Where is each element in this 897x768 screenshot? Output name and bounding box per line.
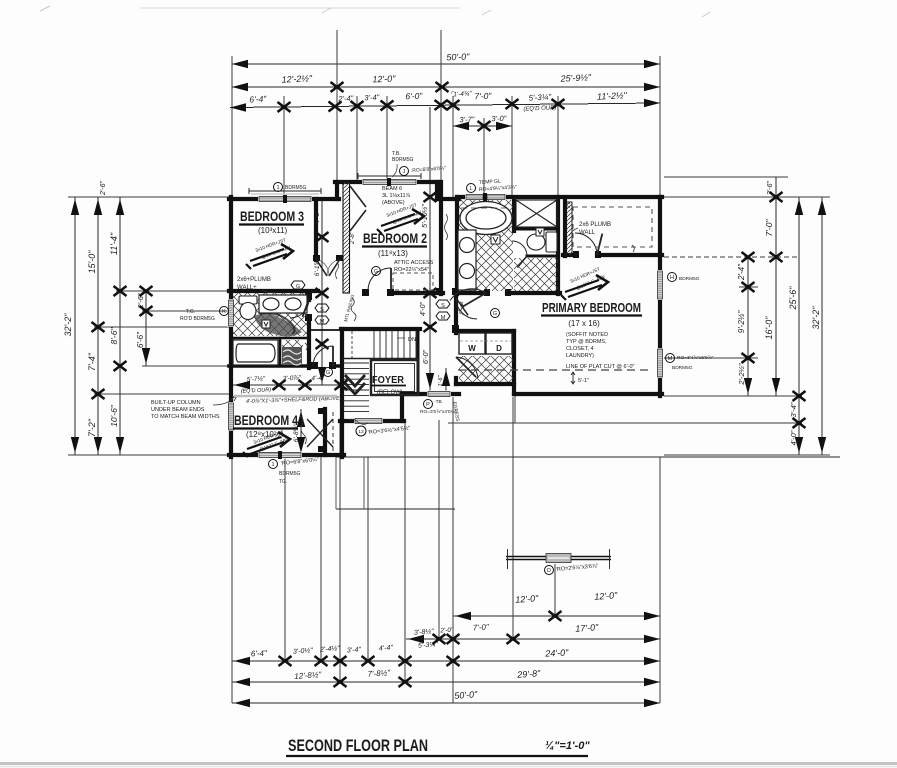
toilet left bath <box>239 296 257 320</box>
svg-text:BUILT-UP COLUMN: BUILT-UP COLUMN <box>151 400 201 406</box>
svg-text:12'-0": 12'-0" <box>594 590 618 602</box>
door hall to primary (bath lower) <box>456 298 477 319</box>
tag circle J bed2 window <box>400 166 447 176</box>
tag circle 1 bed4 window <box>269 457 320 485</box>
svg-text:2'-6": 2'-6" <box>767 181 774 196</box>
svg-text:BEDROOM 3: BEDROOM 3 <box>240 209 304 224</box>
beam arrow primary <box>561 275 608 300</box>
door bed4 hall entry <box>313 346 333 366</box>
svg-text:2'-8": 2'-8" <box>350 231 356 245</box>
door bed4 closet bifold <box>307 419 333 447</box>
svg-text:DN: DN <box>408 337 416 343</box>
wall hall railing <box>309 329 343 331</box>
wall tub alcove <box>233 337 307 340</box>
vent square bath2 <box>536 228 544 236</box>
svg-text:10'-6": 10'-6" <box>109 404 119 427</box>
svg-text:32'-2": 32'-2" <box>811 306 821 330</box>
wall bed2/bed3 plumb divider <box>343 182 350 293</box>
svg-text:3'-0⅞": 3'-0⅞" <box>283 374 302 382</box>
chevron down arrows <box>345 375 365 394</box>
label BEDROOM 3 <box>239 209 304 235</box>
svg-text:(EQ'D OUR): (EQ'D OUR) <box>523 105 556 113</box>
svg-text:2'-0": 2'-0" <box>439 627 454 635</box>
svg-text:11'-4": 11'-4" <box>109 232 119 255</box>
svg-text:29'-8": 29'-8" <box>516 668 541 680</box>
svg-text:2'-2½": 2'-2½" <box>737 363 746 386</box>
svg-text:BEDROOM 4: BEDROOM 4 <box>234 413 298 428</box>
svg-text:LINE OF PLAT CUT @ 6'-0": LINE OF PLAT CUT @ 6'-0" <box>566 364 635 370</box>
svg-text:13: 13 <box>358 429 364 435</box>
svg-text:L: L <box>469 186 472 192</box>
tag hex G bed3 <box>291 281 305 290</box>
hatch W/D floor <box>459 356 513 382</box>
wall hall bottom <box>402 392 459 396</box>
svg-text:12'-0": 12'-0" <box>515 593 539 605</box>
svg-text:24'-0": 24'-0" <box>544 647 569 658</box>
svg-text:¼"=1'-0": ¼"=1'-0" <box>545 740 590 752</box>
wall bath(left) bottom <box>229 364 341 368</box>
extension verticals top <box>232 30 660 199</box>
tag circle 13 foyer window <box>356 425 411 436</box>
svg-text:M: M <box>668 356 673 362</box>
wall bed2 bottom <box>390 291 443 295</box>
svg-text:5'-1": 5'-1" <box>578 378 589 384</box>
wall jog bed2 top-left <box>335 182 339 199</box>
svg-text:50'-0": 50'-0" <box>454 689 478 701</box>
wall bed4 bottom <box>229 453 344 457</box>
svg-text:2'-4": 2'-4" <box>737 263 746 281</box>
svg-text:BEDROOM 2: BEDROOM 2 <box>363 231 427 246</box>
svg-text:WALL+: WALL+ <box>237 285 257 291</box>
wall closet left <box>563 199 567 256</box>
label BEDROOM 4 <box>233 413 298 439</box>
primary shower <box>516 200 557 227</box>
svg-text:3'-8½": 3'-8½" <box>414 627 435 636</box>
wall bath+closet top <box>457 195 662 199</box>
svg-text:2'-6": 2'-6" <box>100 181 107 196</box>
svg-text:SECOND FLOOR PLAN: SECOND FLOOR PLAN <box>288 737 428 755</box>
hatch left bath floor <box>233 293 307 336</box>
svg-text:2x6 PLUMB: 2x6 PLUMB <box>579 222 611 228</box>
left dim verticals <box>74 197 76 455</box>
wall bath left <box>455 197 459 294</box>
svg-text:K: K <box>222 309 226 315</box>
svg-text:H: H <box>670 275 674 281</box>
svg-text:8'-6": 8'-6" <box>109 327 119 345</box>
wall primary bottom <box>514 392 662 396</box>
wall hall top piece <box>437 197 459 201</box>
tag circle P hall window <box>420 399 460 422</box>
dashed landing line <box>351 331 353 358</box>
svg-text:3'-4": 3'-4" <box>789 402 798 417</box>
hatch shower-left dark <box>282 347 302 365</box>
svg-text:7'-2": 7'-2" <box>87 418 97 437</box>
window W8 bed4 bottom <box>258 451 302 459</box>
door jamb blocks <box>305 251 601 452</box>
tag circle H right <box>668 273 700 283</box>
wall foyer bottom <box>340 419 404 423</box>
inner dim row y=385 <box>232 384 341 386</box>
svg-text:BEAM 6: BEAM 6 <box>382 186 402 192</box>
svg-text:PRIMARY BEDROOM: PRIMARY BEDROOM <box>542 300 641 315</box>
svg-text:TG.: TG. <box>279 479 287 485</box>
svg-text:15'-0": 15'-0" <box>87 250 97 274</box>
window W5 right wall lower <box>657 348 664 378</box>
assorted hand scribbles <box>300 214 634 444</box>
svg-text:3'-4": 3'-4" <box>347 646 362 654</box>
bed4 soffit gray line <box>234 395 337 397</box>
beam arrow bed4 <box>243 432 290 457</box>
label FOYER <box>371 375 406 396</box>
window W7 foyer bottom <box>354 418 383 425</box>
wall W/D top <box>456 329 514 333</box>
svg-text:G: G <box>374 269 378 275</box>
svg-text:M: M <box>320 319 325 325</box>
svg-text:3'-7": 3'-7" <box>459 115 475 125</box>
tag circle G primary <box>491 309 500 318</box>
wall bath bottom right piece <box>507 291 560 295</box>
door bed3 closet double <box>316 259 340 276</box>
svg-text:6'-0": 6'-0" <box>405 91 423 102</box>
svg-text:2x6+PLUMB: 2x6+PLUMB <box>237 277 271 283</box>
svg-text:(SOFFIT NOTED: (SOFFIT NOTED <box>566 332 608 338</box>
X ticks on dimension lines <box>92 82 806 687</box>
svg-text:LAUNDRY): LAUNDRY) <box>566 353 594 359</box>
wall bath bottom left piece <box>457 291 486 295</box>
lower stair treads <box>343 363 369 412</box>
svg-text:7'-8½": 7'-8½" <box>367 668 391 679</box>
svg-text:D: D <box>496 344 502 353</box>
wall stair top <box>341 327 420 331</box>
wall W/D right <box>512 331 516 394</box>
vent square left bath <box>262 320 270 328</box>
wall bed2 right / hall <box>439 182 443 294</box>
dimension arrowheads <box>71 60 826 707</box>
svg-text:16'-0": 16'-0" <box>764 316 774 340</box>
svg-text:5'-3¼": 5'-3¼" <box>418 641 439 649</box>
svg-text:RO=3'4⅞"x6'0⅞": RO=3'4⅞"x6'0⅞" <box>677 355 714 361</box>
right dim verticals <box>747 257 749 396</box>
svg-text:RO=22½"x54": RO=22½"x54" <box>394 266 429 273</box>
wall W/D left lower <box>454 378 458 384</box>
svg-text:(11⁸x13): (11⁸x13) <box>378 249 408 258</box>
door walk-in closet <box>575 233 597 255</box>
svg-text:FOYER: FOYER <box>372 375 405 386</box>
svg-text:M: M <box>441 315 446 321</box>
wall right exterior <box>658 197 662 396</box>
tag circle G bed2 <box>372 267 381 276</box>
svg-text:S: S <box>320 307 324 313</box>
svg-text:G: G <box>296 284 300 290</box>
svg-text:WALL: WALL <box>579 230 596 236</box>
left extension horizontals <box>68 197 233 455</box>
svg-text:4'-8": 4'-8" <box>314 210 321 224</box>
window W3 bath top (temp glass) <box>465 193 506 201</box>
inner dim vertical hall 1'-6 <box>445 368 447 393</box>
window W1 bed3 top <box>258 195 312 203</box>
beam arrow bed3 <box>246 244 293 269</box>
svg-text:6'-6": 6'-6" <box>136 331 145 348</box>
label BEDROOM 2 <box>362 231 427 258</box>
svg-text:5'-3¼": 5'-3¼" <box>528 92 552 102</box>
tag circle M right lower <box>666 354 714 372</box>
svg-text:5'-7½": 5'-7½" <box>247 374 266 383</box>
svg-text:3'-4": 3'-4" <box>364 93 380 103</box>
primary tub oval <box>460 202 512 235</box>
svg-text:12'-2½": 12'-2½" <box>281 73 313 85</box>
right extension horizontals <box>448 177 830 455</box>
svg-text:12'-8½": 12'-8½" <box>294 670 323 681</box>
svg-text:RO=3'0⅞"x4'0¼": RO=3'0⅞"x4'0¼" <box>420 409 457 415</box>
svg-text:P: P <box>426 402 430 408</box>
tag circle K left wall <box>220 307 229 316</box>
stair rail mid <box>342 358 418 360</box>
door W/D closet <box>456 357 476 377</box>
svg-text:RO'D BDRM5G: RO'D BDRM5G <box>180 316 215 322</box>
svg-text:1: 1 <box>271 462 274 468</box>
window dim bracket above bed2 <box>358 173 421 179</box>
top dim line row2 <box>232 86 660 88</box>
window W6 hall bottom egress <box>427 391 451 398</box>
inner dim vertical bed4 window <box>300 409 302 453</box>
bottom extension verticals <box>232 396 660 703</box>
svg-text:'RO=2'6⅞"x3'6⅞": 'RO=2'6⅞"x3'6⅞" <box>556 563 599 573</box>
wall foyer-hall step <box>400 394 404 421</box>
wall jog bed2 top-right <box>435 182 439 199</box>
svg-text:7'-4": 7'-4" <box>87 352 97 371</box>
primary toilet <box>527 232 557 252</box>
svg-text:3L 1⅛x11⅞: 3L 1⅛x11⅞ <box>382 193 411 199</box>
svg-text:BDRM5G: BDRM5G <box>679 276 700 282</box>
wall bed4 right <box>323 409 327 455</box>
svg-text:J: J <box>403 169 406 175</box>
svg-text:4'-0": 4'-0" <box>420 302 427 316</box>
door left bath entry <box>290 299 309 318</box>
svg-text:17'-0": 17'-0" <box>575 622 599 634</box>
window W11 floating lower center <box>506 549 611 569</box>
svg-text:1'-6": 1'-6" <box>438 374 444 386</box>
tag circle D lower window <box>545 563 599 574</box>
wall bath right <box>556 197 560 294</box>
svg-text:2'-6": 2'-6" <box>136 293 145 309</box>
wall foyer left <box>340 329 344 457</box>
svg-text:5'1: 5'1 <box>566 202 571 208</box>
door bed2 closet double <box>350 186 366 231</box>
svg-text:32'-2": 32'-2" <box>63 313 73 337</box>
wall hall to W/D <box>454 294 458 333</box>
wall bath(left) right <box>307 293 311 368</box>
hatch primary bath floor left <box>459 200 513 291</box>
svg-text:(EQ'D OUR): (EQ'D OUR) <box>241 387 272 395</box>
svg-text:BDRM5G: BDRM5G <box>285 185 307 191</box>
window W10 left wall bed4 <box>228 402 235 431</box>
window W2 bed2 top <box>362 178 417 186</box>
hatch primary bath floor right <box>514 258 558 291</box>
svg-text:4'-0": 4'-0" <box>789 430 798 445</box>
svg-text:D: D <box>547 568 551 574</box>
svg-text:7'-0": 7'-0" <box>473 622 491 632</box>
wall left exterior <box>229 197 233 457</box>
svg-text:UNDER BEAM ENDS: UNDER BEAM ENDS <box>151 407 205 413</box>
wall closet bottom <box>597 253 662 257</box>
wall bed3 top <box>229 197 339 201</box>
svg-text:G: G <box>493 311 497 317</box>
window W9 left wall bath <box>228 299 235 327</box>
svg-text:7'-0": 7'-0" <box>474 91 492 102</box>
tag hex pair hall right <box>436 300 450 321</box>
pencil smudge left bath <box>254 313 302 336</box>
svg-text:ATTIC ACCESS: ATTIC ACCESS <box>394 260 434 266</box>
svg-text:MTL RAILING: MTL RAILING <box>343 293 355 322</box>
bottom dim rows <box>453 615 660 617</box>
svg-text:TO MATCH BEAM WIDTHS: TO MATCH BEAM WIDTHS <box>151 414 220 420</box>
svg-text:4'-4": 4'-4" <box>311 375 325 383</box>
top dim line row4 3'-7/3'-0 <box>453 125 512 127</box>
tub left bath <box>233 340 278 365</box>
wall bed3 right <box>314 199 318 260</box>
bed3 window soffit gray <box>251 193 319 195</box>
svg-text:5'-10½": 5'-10½" <box>421 204 429 228</box>
porch outline lines <box>336 456 840 458</box>
scan specks <box>40 6 710 17</box>
svg-text:6'-1⅝": 6'-1⅝" <box>314 257 321 276</box>
tag circle G bed4row <box>324 368 333 377</box>
svg-text:2'-4": 2'-4" <box>337 94 354 104</box>
svg-text:(BELOW): (BELOW) <box>377 390 403 396</box>
note line of plate cut <box>458 369 648 371</box>
vent square bath1 <box>491 235 500 244</box>
scan bottom edge <box>0 762 897 765</box>
svg-text:6'-4": 6'-4" <box>251 649 269 659</box>
svg-text:25'-9½": 25'-9½" <box>559 72 592 84</box>
inner dim vertical at hall x=430 <box>429 107 431 391</box>
door bed2 entry <box>368 268 391 291</box>
top dim line row3 <box>230 103 660 108</box>
svg-text:(17 x 16): (17 x 16) <box>568 319 600 328</box>
wall tub/shower divider <box>279 338 282 366</box>
svg-text:RO=4'9¼"x4'3¾": RO=4'9¼"x4'3¾" <box>479 184 517 193</box>
svg-text:50'-0": 50'-0" <box>446 52 470 63</box>
door toilet room <box>512 241 527 256</box>
svg-text:BDRM5G: BDRM5G <box>672 365 693 371</box>
wall toilet room bottom <box>527 255 558 258</box>
svg-text:G: G <box>326 370 330 376</box>
svg-text:9'-2½": 9'-2½" <box>737 310 746 334</box>
window W4 right wall upper <box>657 270 664 300</box>
svg-text:'RO=3'6½"x4'5½": 'RO=3'6½"x4'5½" <box>367 425 410 436</box>
svg-text:(10³x11): (10³x11) <box>258 226 288 235</box>
upper stair treads <box>374 331 416 358</box>
wall stair right <box>417 329 420 394</box>
svg-text:1: 1 <box>276 185 279 191</box>
wall closet plumb band <box>566 202 572 255</box>
wall closet bottom jamb <box>563 253 576 257</box>
closet dashed shelving <box>573 207 652 247</box>
window dim bracket above bed3 <box>249 188 321 194</box>
svg-text:⌜1'-4¾": ⌜1'-4¾" <box>450 90 472 98</box>
svg-text:3'-0½": 3'-0½" <box>293 646 314 655</box>
tag hex pair hall left <box>315 304 329 325</box>
svg-text:3'-0": 3'-0" <box>491 114 507 124</box>
label PRIMARY BEDROOM <box>541 300 642 328</box>
tag circle 1 bed3 window <box>274 183 307 192</box>
svg-text:6'-0": 6'-0" <box>423 350 430 364</box>
tag circle D bath window <box>467 178 518 193</box>
inner dim vertical x=322 <box>321 199 323 385</box>
wall shower bottom <box>514 228 558 231</box>
svg-text:·TB.: ·TB. <box>434 399 443 405</box>
wall bed3 bottom <box>229 289 318 293</box>
stairwell open box <box>371 360 418 395</box>
svg-text:BDRM5G: BDRM5G <box>392 157 414 163</box>
beam arrow bed2 <box>377 209 424 234</box>
svg-text:4'-4": 4'-4" <box>379 644 394 652</box>
svg-text:TYP @ BDRMS,: TYP @ BDRMS, <box>566 339 607 345</box>
svg-text:W: W <box>468 344 476 353</box>
svg-text:25'-6": 25'-6" <box>788 286 798 311</box>
svg-text:2'-4½": 2'-4½" <box>319 644 341 653</box>
svg-text:BDRM5G: BDRM5G <box>279 471 301 477</box>
vanity left bath <box>259 295 307 313</box>
svg-text:'RO=6'8"x6'0¼": 'RO=6'8"x6'0¼" <box>281 457 320 467</box>
svg-text:12'-0": 12'-0" <box>372 74 396 85</box>
top dim line 50'-0 <box>232 63 660 65</box>
wall bed2 top <box>335 180 439 184</box>
wall shower left <box>512 199 516 231</box>
scan artifact top line <box>140 7 460 9</box>
washer dryer boxes <box>459 333 512 354</box>
primary double vanity <box>458 230 476 290</box>
svg-text:6'-4": 6'-4" <box>249 94 267 105</box>
svg-text:(ABOVE): (ABOVE) <box>382 200 405 206</box>
svg-text:T.G.: T.G. <box>186 309 195 315</box>
svg-text:S: S <box>441 303 445 309</box>
wall W/D bottom <box>456 382 514 386</box>
svg-text:7'-0": 7'-0" <box>764 219 774 237</box>
svg-text:CLOSET, 4: CLOSET, 4 <box>566 346 594 352</box>
svg-text:11'-2½": 11'-2½" <box>597 90 628 102</box>
door primary entry <box>462 293 486 307</box>
